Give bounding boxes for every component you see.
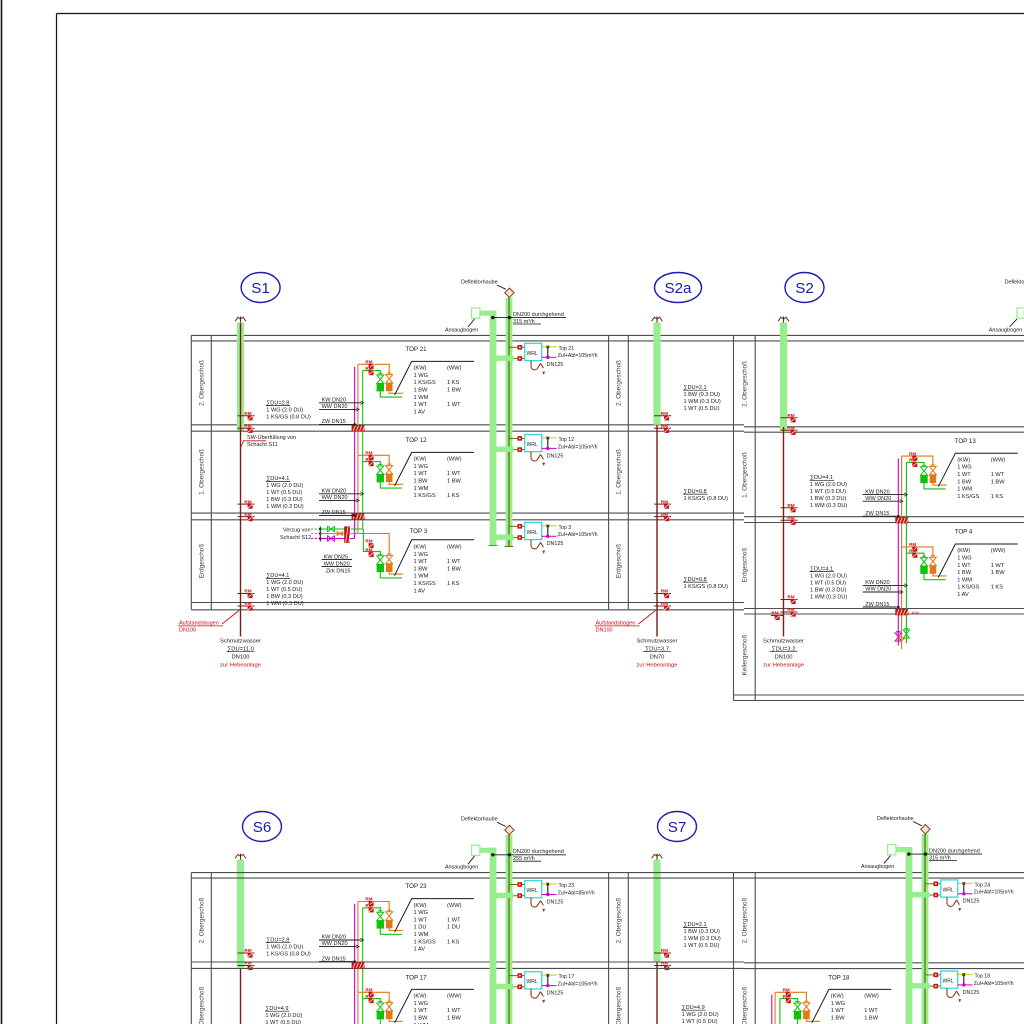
svg-text:RM: RM bbox=[244, 601, 251, 606]
svg-text:zur Hebeanlage: zur Hebeanlage bbox=[220, 663, 261, 669]
svg-text:WRL: WRL bbox=[527, 530, 538, 536]
svg-text:1 WT (0.5 DU): 1 WT (0.5 DU) bbox=[682, 1019, 718, 1024]
supply riser KW (green) S6 shaft bbox=[362, 908, 364, 1024]
svg-text:1 BW: 1 BW bbox=[447, 479, 462, 485]
riser waste line S7 (dark red) bbox=[656, 962, 658, 1024]
wall line S1 col right (top section) bbox=[210, 335, 212, 609]
svg-text:S7: S7 bbox=[668, 819, 687, 836]
WRL ventilation unit Top 18 bbox=[909, 983, 930, 988]
RM markers on riser S1 bbox=[238, 503, 255, 505]
wall line right col right (bottom section) bbox=[754, 873, 756, 1024]
svg-text:(WW): (WW) bbox=[447, 994, 462, 1000]
svg-text:RM: RM bbox=[909, 451, 916, 456]
RM markers on riser S6 bbox=[238, 952, 255, 954]
slab penetration hatch S1 1.OG bbox=[352, 513, 365, 519]
svg-text:1 WT: 1 WT bbox=[414, 917, 428, 923]
svg-text:1. Obergeschoß: 1. Obergeschoß bbox=[615, 986, 622, 1024]
WRL ventilation unit Top 3 bbox=[493, 535, 514, 540]
svg-text:RM: RM bbox=[244, 589, 251, 594]
supply riser ZW (magenta) bottom-right shaft bbox=[771, 995, 773, 1024]
svg-text:Zirk DN15: Zirk DN15 bbox=[326, 568, 351, 574]
svg-text:1 KS: 1 KS bbox=[447, 380, 460, 386]
svg-text:1 WM: 1 WM bbox=[414, 486, 429, 492]
svg-text:1 BW (0.3 DU): 1 BW (0.3 DU) bbox=[810, 496, 847, 502]
svg-text:TOP 17: TOP 17 bbox=[406, 974, 428, 981]
svg-text:DN125: DN125 bbox=[547, 453, 564, 459]
floor slab roof band (top section, full width) bbox=[191, 334, 1024, 336]
svg-text:2. Obergeschoß: 2. Obergeschoß bbox=[741, 897, 748, 943]
svg-text:TOP 3: TOP 3 bbox=[410, 528, 428, 535]
svg-text:DN125: DN125 bbox=[963, 990, 980, 996]
svg-text:(WW): (WW) bbox=[447, 545, 462, 551]
Ansaugbogen symbol (S6 bottom) bbox=[479, 848, 497, 853]
svg-text:Erdgeschoß: Erdgeschoß bbox=[615, 544, 622, 579]
svg-text:1 WG: 1 WG bbox=[957, 556, 972, 562]
svg-text:(WW): (WW) bbox=[447, 457, 462, 463]
Ansaugbogen symbol (S1 top) bbox=[479, 311, 497, 316]
svg-text:(KW): (KW) bbox=[957, 548, 970, 554]
svg-text:DN200 durchgehend: DN200 durchgehend bbox=[513, 312, 564, 318]
svg-text:DN100: DN100 bbox=[231, 655, 249, 661]
svg-text:1 WT: 1 WT bbox=[414, 1008, 428, 1014]
WRL ventilation unit Top 12 bbox=[493, 447, 514, 452]
svg-text:RM: RM bbox=[661, 601, 668, 606]
svg-text:DN100: DN100 bbox=[596, 628, 613, 634]
svg-text:Deflektorhaube: Deflektorhaube bbox=[1005, 280, 1024, 286]
Deflektorhaube symbol (S1 top) bbox=[505, 288, 514, 297]
svg-text:Schmutzwasser: Schmutzwasser bbox=[220, 639, 261, 645]
WRL ventilation unit Top 17 bbox=[493, 984, 514, 989]
RM markers on riser S2 bbox=[781, 599, 798, 601]
svg-text:(KW): (KW) bbox=[414, 545, 427, 551]
wall line S2 col left (top section) bbox=[733, 335, 735, 700]
svg-text:(KW): (KW) bbox=[414, 903, 427, 909]
svg-text:1 WT: 1 WT bbox=[957, 563, 971, 569]
svg-text:RM: RM bbox=[244, 424, 251, 429]
svg-text:S2a: S2a bbox=[664, 280, 692, 297]
riser pipe S6 (green) bbox=[237, 860, 244, 968]
svg-text:1 DU: 1 DU bbox=[414, 925, 427, 931]
supply riser KW (green) bottom-right shaft bbox=[779, 999, 781, 1024]
svg-text:Zul+Abl=105m³/h: Zul+Abl=105m³/h bbox=[974, 981, 1014, 987]
svg-text:1 KS: 1 KS bbox=[447, 581, 460, 587]
WRL ventilation unit Top 24 bbox=[909, 892, 930, 897]
svg-text:RM: RM bbox=[661, 589, 668, 594]
svg-text:1 BW: 1 BW bbox=[957, 479, 972, 485]
EG distribution runs (S1) bbox=[320, 528, 363, 530]
svg-text:Schmutzwasser: Schmutzwasser bbox=[637, 639, 678, 645]
svg-text:1. Obergeschoß: 1. Obergeschoß bbox=[741, 986, 748, 1024]
svg-text:1 AV: 1 AV bbox=[957, 592, 969, 598]
riser waste line S1 (dark red) bbox=[240, 323, 242, 637]
svg-text:RM: RM bbox=[365, 457, 372, 462]
exhaust duct (bottom right) bbox=[922, 834, 929, 1024]
DN200 note (S1 top) bbox=[493, 317, 566, 319]
WRL ventilation unit Top 23 bbox=[493, 893, 514, 898]
svg-text:1 WT: 1 WT bbox=[447, 471, 461, 477]
svg-text:WRL: WRL bbox=[943, 978, 954, 984]
svg-text:S6: S6 bbox=[253, 819, 272, 836]
wall line S2a col left (top section) bbox=[608, 335, 610, 609]
riser pipe S2a (green) bbox=[653, 323, 660, 425]
svg-text:1 KS/GS: 1 KS/GS bbox=[414, 493, 436, 499]
exhaust duct core line (S6 bottom) bbox=[508, 835, 510, 1024]
svg-text:1 WM (0.3 DU): 1 WM (0.3 DU) bbox=[684, 399, 721, 405]
Deflektorhaube symbol (S6 bottom) bbox=[505, 825, 514, 834]
svg-text:Deflektorhaube: Deflektorhaube bbox=[461, 280, 498, 286]
svg-text:1 BW: 1 BW bbox=[414, 479, 429, 485]
supply riser WW (orange) S6 shaft bbox=[357, 902, 359, 1024]
supply riser WW (orange) bottom-right shaft bbox=[774, 992, 776, 1024]
svg-text:1 WM: 1 WM bbox=[414, 574, 429, 580]
svg-text:RM: RM bbox=[909, 458, 916, 463]
svg-text:1 WG: 1 WG bbox=[414, 1001, 429, 1007]
svg-text:Ansaugbogen: Ansaugbogen bbox=[445, 865, 478, 871]
svg-text:RM: RM bbox=[365, 539, 372, 544]
RM markers on riser S7 bbox=[654, 952, 671, 954]
svg-text:TOP 23: TOP 23 bbox=[406, 883, 428, 890]
wall line S6 col right (bottom section) bbox=[210, 873, 212, 1024]
vent arrow above riser S2 bbox=[783, 317, 785, 326]
svg-text:1 BW: 1 BW bbox=[864, 1016, 879, 1022]
svg-text:RM: RM bbox=[244, 512, 251, 517]
svg-text:KW: KW bbox=[912, 611, 920, 616]
svg-text:Zul+Abl=105m³/h: Zul+Abl=105m³/h bbox=[558, 353, 598, 359]
svg-text:RM: RM bbox=[365, 903, 372, 908]
svg-text:SW-Überfüllung von: SW-Überfüllung von bbox=[247, 434, 296, 441]
svg-text:DN125: DN125 bbox=[963, 899, 980, 905]
svg-text:1 WT: 1 WT bbox=[991, 563, 1005, 569]
svg-text:1 WT: 1 WT bbox=[447, 402, 461, 408]
svg-text:Ansaugbogen: Ansaugbogen bbox=[989, 328, 1022, 334]
svg-text:(WW): (WW) bbox=[447, 903, 462, 909]
svg-text:DN100: DN100 bbox=[179, 628, 196, 634]
supply riser WW (orange) S2 shaft bbox=[901, 456, 903, 649]
svg-text:1 WM: 1 WM bbox=[957, 577, 972, 583]
svg-text:RM: RM bbox=[661, 512, 668, 517]
svg-text:RM: RM bbox=[365, 897, 372, 902]
page edge line (left paper border) bbox=[1, 0, 3, 1024]
KG valve set below S2 shaft bbox=[895, 633, 901, 641]
svg-text:1 WT: 1 WT bbox=[447, 1008, 461, 1014]
exhaust duct (S1 top) bbox=[506, 298, 513, 547]
vent arrow above riser S6 bbox=[240, 854, 242, 863]
floor slab KG bottom (S2 zone) bbox=[734, 694, 1024, 696]
svg-text:1 WG (2.0 DU): 1 WG (2.0 DU) bbox=[266, 483, 303, 489]
svg-text:RM: RM bbox=[909, 542, 916, 547]
svg-text:1 BW: 1 BW bbox=[414, 388, 429, 394]
svg-text:(WW): (WW) bbox=[864, 994, 879, 1000]
svg-text:Top 24: Top 24 bbox=[975, 882, 991, 888]
RM markers on riser S2 bbox=[781, 417, 798, 419]
svg-text:1 WT: 1 WT bbox=[957, 472, 971, 478]
svg-text:1 BW (0.3 DU): 1 BW (0.3 DU) bbox=[684, 392, 721, 398]
wall line S1 col left (top section) bbox=[190, 335, 192, 609]
svg-text:1 KS: 1 KS bbox=[991, 494, 1004, 500]
svg-text:1 WG (2.0 DU): 1 WG (2.0 DU) bbox=[810, 573, 847, 579]
drawing frame top line bbox=[57, 13, 1024, 15]
svg-text:RM: RM bbox=[783, 988, 790, 993]
svg-text:2. Obergeschoß: 2. Obergeschoß bbox=[615, 897, 622, 943]
WRL ventilation unit Top 21 bbox=[493, 356, 514, 361]
floor slab 2.OG/1.OG separator (S1-S2a zone) bbox=[191, 424, 744, 426]
svg-text:Top 21: Top 21 bbox=[559, 346, 575, 352]
DN200 note (S6 bottom) bbox=[493, 854, 566, 856]
svg-text:1 KS/GS (0.8 DU): 1 KS/GS (0.8 DU) bbox=[266, 952, 311, 958]
svg-text:Deflektorhaube: Deflektorhaube bbox=[461, 817, 498, 823]
svg-text:RM: RM bbox=[787, 595, 794, 600]
svg-text:1. Obergeschoß: 1. Obergeschoß bbox=[198, 449, 205, 495]
svg-text:1 WM: 1 WM bbox=[414, 932, 429, 938]
supply riser ZW (magenta) S1 shaft bbox=[354, 367, 356, 539]
svg-text:1 KS/GS (0.8 DU): 1 KS/GS (0.8 DU) bbox=[684, 584, 729, 590]
svg-text:RM: RM bbox=[787, 413, 794, 418]
supply riser KW (green) S2 shaft bbox=[905, 462, 907, 643]
svg-text:TOP 12: TOP 12 bbox=[406, 437, 428, 444]
svg-text:1. Obergeschoß: 1. Obergeschoß bbox=[198, 986, 205, 1024]
svg-text:1 WG: 1 WG bbox=[414, 910, 429, 916]
svg-text:TOP 13: TOP 13 bbox=[955, 438, 977, 445]
svg-text:DN200 durchgehend: DN200 durchgehend bbox=[513, 849, 564, 855]
svg-text:DN100: DN100 bbox=[774, 655, 792, 661]
slab penetration hatch S2 1.OG bbox=[895, 517, 908, 523]
svg-text:1 AV: 1 AV bbox=[414, 947, 426, 953]
svg-text:1 BW (0.3 DU): 1 BW (0.3 DU) bbox=[684, 929, 721, 935]
svg-text:WRL: WRL bbox=[527, 979, 538, 985]
svg-text:RM: RM bbox=[783, 994, 790, 999]
strand bubble S2 bbox=[785, 273, 824, 303]
floor slab roof band (bottom section) bbox=[191, 872, 1024, 874]
svg-text:Deflektorhaube: Deflektorhaube bbox=[877, 816, 914, 822]
svg-text:WRL: WRL bbox=[943, 887, 954, 893]
svg-text:1 BW: 1 BW bbox=[957, 570, 972, 576]
svg-text:1 KS: 1 KS bbox=[447, 493, 460, 499]
svg-text:RM: RM bbox=[787, 515, 794, 520]
svg-text:1 WM (0.3 DU): 1 WM (0.3 DU) bbox=[684, 936, 721, 942]
apartment tap group TOP 18 bbox=[775, 992, 806, 1002]
svg-text:RM: RM bbox=[365, 988, 372, 993]
svg-text:1 KS/GS (0.8 DU): 1 KS/GS (0.8 DU) bbox=[266, 414, 311, 420]
svg-text:DN125: DN125 bbox=[547, 899, 564, 905]
vent arrow above riser S2a bbox=[656, 317, 658, 326]
svg-text:RM: RM bbox=[661, 411, 668, 416]
svg-text:RM: RM bbox=[244, 948, 251, 953]
floor slab 2.OG/1.OG separator (S2 zone) bbox=[744, 426, 1024, 428]
svg-text:2. Obergeschoß: 2. Obergeschoß bbox=[198, 360, 205, 406]
svg-text:RM: RM bbox=[365, 360, 372, 365]
RM marker left of S2 riser foot bbox=[771, 615, 784, 617]
svg-text:1 WT: 1 WT bbox=[447, 917, 461, 923]
apartment tap group TOP 23 bbox=[358, 902, 389, 912]
floor slab EG bottom (S1-S2a zone) bbox=[191, 602, 744, 604]
duct end caps (S1 top) bbox=[489, 545, 498, 547]
svg-text:Zul+Abl=105m³/h: Zul+Abl=105m³/h bbox=[558, 532, 598, 538]
svg-text:Erdgeschoß: Erdgeschoß bbox=[198, 544, 205, 579]
apartment tap group TOP 3 bbox=[363, 529, 380, 556]
svg-text:TOP 4: TOP 4 bbox=[955, 529, 973, 536]
exhaust duct (S6 bottom) bbox=[506, 835, 513, 1024]
slab penetration hatch S6 2.OG bbox=[352, 962, 365, 968]
floor slab 2.OG/1.OG separator (bottom right zone) bbox=[744, 962, 1024, 964]
svg-text:RM: RM bbox=[365, 451, 372, 456]
svg-text:1 WG: 1 WG bbox=[414, 373, 429, 379]
svg-text:1. Obergeschoß: 1. Obergeschoß bbox=[615, 449, 622, 495]
svg-text:RM: RM bbox=[771, 611, 778, 616]
svg-text:1 WT (0.5 DU): 1 WT (0.5 DU) bbox=[810, 580, 846, 586]
svg-text:Top 23: Top 23 bbox=[559, 883, 575, 889]
svg-text:zur Hebeanlage: zur Hebeanlage bbox=[763, 663, 804, 669]
apartment tap group TOP 13 bbox=[902, 456, 933, 466]
svg-text:S1: S1 bbox=[251, 280, 270, 297]
svg-text:1 KS: 1 KS bbox=[447, 939, 460, 945]
svg-text:1 BW: 1 BW bbox=[991, 479, 1006, 485]
svg-text:1 KS/GS: 1 KS/GS bbox=[957, 494, 979, 500]
svg-text:Schacht S11: Schacht S11 bbox=[247, 442, 278, 448]
svg-text:1 WG (2.0 DU): 1 WG (2.0 DU) bbox=[266, 945, 303, 951]
svg-text:RM: RM bbox=[244, 411, 251, 416]
svg-text:RM: RM bbox=[244, 499, 251, 504]
svg-text:DN200 durchgehend: DN200 durchgehend bbox=[929, 849, 980, 855]
vent arrow above riser S1 bbox=[240, 317, 242, 326]
svg-text:1 WM (0.3 DU): 1 WM (0.3 DU) bbox=[266, 601, 303, 607]
svg-text:(WW): (WW) bbox=[991, 457, 1006, 463]
svg-text:RM: RM bbox=[661, 948, 668, 953]
svg-text:1 BW (0.3 DU): 1 BW (0.3 DU) bbox=[266, 594, 303, 600]
slab penetration hatch S2 EG bbox=[895, 609, 908, 615]
svg-text:TOP 21: TOP 21 bbox=[406, 346, 428, 353]
wall line S7 col right (bottom section) bbox=[627, 873, 629, 1024]
svg-text:RM: RM bbox=[365, 994, 372, 999]
svg-text:(WW): (WW) bbox=[991, 548, 1006, 554]
svg-text:1 WG (2.0 DU): 1 WG (2.0 DU) bbox=[266, 580, 303, 586]
vent arrow above riser S7 bbox=[656, 854, 658, 863]
svg-text:1 WT (0.5 DU): 1 WT (0.5 DU) bbox=[266, 490, 302, 496]
svg-text:WRL: WRL bbox=[527, 351, 538, 357]
inline meter hatch (S1 EG) bbox=[344, 526, 350, 542]
svg-text:RM: RM bbox=[787, 607, 794, 612]
svg-text:zur Hebeanlage: zur Hebeanlage bbox=[637, 663, 678, 669]
svg-text:WRL: WRL bbox=[527, 442, 538, 448]
svg-text:1. Obergeschoß: 1. Obergeschoß bbox=[741, 452, 748, 498]
svg-text:1 BW: 1 BW bbox=[831, 1016, 846, 1022]
floor slab 1.OG/EG separator (S1-S2a zone) bbox=[191, 512, 744, 514]
svg-text:1 DU: 1 DU bbox=[447, 925, 460, 931]
svg-text:1 BW: 1 BW bbox=[447, 1016, 462, 1022]
svg-text:Top 17: Top 17 bbox=[559, 974, 575, 980]
floor slab EG/KG separator (S2 zone) bbox=[744, 608, 1024, 610]
svg-text:1 BW (0.3 DU): 1 BW (0.3 DU) bbox=[810, 587, 847, 593]
supply duct (bottom right) bbox=[906, 847, 913, 1024]
svg-text:1 WG (2.0 DU): 1 WG (2.0 DU) bbox=[810, 482, 847, 488]
drawing frame left line bbox=[56, 14, 58, 1024]
svg-text:1 WT: 1 WT bbox=[447, 559, 461, 565]
svg-text:1 WT: 1 WT bbox=[991, 472, 1005, 478]
svg-text:1 WM: 1 WM bbox=[957, 487, 972, 493]
svg-text:1 AV: 1 AV bbox=[414, 409, 426, 415]
svg-text:1 KS/GS (0.8 DU): 1 KS/GS (0.8 DU) bbox=[684, 496, 729, 502]
svg-text:1 WG (2.0 DU): 1 WG (2.0 DU) bbox=[682, 1012, 719, 1018]
supply riser WW (orange) S1 shaft bbox=[357, 364, 359, 533]
supply duct (S1 top) bbox=[490, 311, 497, 546]
svg-text:1 AV: 1 AV bbox=[414, 588, 426, 594]
svg-text:1 WT: 1 WT bbox=[414, 471, 428, 477]
svg-text:RM: RM bbox=[909, 548, 916, 553]
RM markers on riser S2a bbox=[654, 503, 671, 505]
svg-text:1 WT: 1 WT bbox=[414, 402, 428, 408]
svg-text:1 WT: 1 WT bbox=[831, 1008, 845, 1014]
Ansaugbogen symbol (bottom right) bbox=[895, 847, 913, 852]
svg-text:1 WG (2.0 DU): 1 WG (2.0 DU) bbox=[265, 1013, 302, 1019]
exhaust duct core line (bottom right) bbox=[924, 834, 926, 1024]
apartment tap group TOP 17 bbox=[358, 992, 389, 1002]
floor slab 2.OG/1.OG separator (S6-S7 zone) bbox=[191, 961, 744, 963]
svg-text:1 WT (0.5 DU): 1 WT (0.5 DU) bbox=[266, 587, 302, 593]
apartment tap group TOP 12 bbox=[358, 455, 389, 465]
svg-text:WRL: WRL bbox=[527, 888, 538, 894]
apartment tap group TOP 4 bbox=[902, 547, 933, 557]
riser waste line S6 (dark red) bbox=[240, 968, 242, 1024]
svg-text:DN125: DN125 bbox=[547, 991, 564, 997]
supply duct (S6 bottom) bbox=[490, 848, 497, 1024]
svg-text:1 WT (0.5 DU): 1 WT (0.5 DU) bbox=[684, 406, 720, 412]
svg-text:1 WM: 1 WM bbox=[414, 395, 429, 401]
svg-text:1 BW: 1 BW bbox=[414, 1016, 429, 1022]
svg-text:1 KS/GS: 1 KS/GS bbox=[414, 939, 436, 945]
supply riser ZW (magenta) S6 shaft bbox=[354, 904, 356, 1024]
svg-text:S2: S2 bbox=[795, 280, 814, 297]
svg-text:RM: RM bbox=[787, 426, 794, 431]
RM markers on riser S1 bbox=[238, 415, 255, 417]
svg-text:2. Obergeschoß: 2. Obergeschoß bbox=[741, 361, 748, 407]
svg-text:(KW): (KW) bbox=[414, 994, 427, 1000]
svg-text:Top 3: Top 3 bbox=[559, 525, 572, 531]
svg-text:Top 12: Top 12 bbox=[559, 437, 575, 443]
Ansaugbogen symbol (top right, cut) bbox=[1017, 308, 1024, 318]
wall line S2a col right (top section) bbox=[627, 335, 629, 609]
svg-text:1 WT: 1 WT bbox=[864, 1008, 878, 1014]
svg-text:(KW): (KW) bbox=[957, 457, 970, 463]
svg-text:Top 18: Top 18 bbox=[975, 973, 991, 979]
wall line S6 col left (bottom section) bbox=[190, 873, 192, 1024]
exhaust duct core line (S1 top) bbox=[508, 298, 510, 548]
svg-text:DN125: DN125 bbox=[547, 541, 564, 547]
supply riser KW (green) S1 shaft bbox=[362, 371, 364, 529]
wall line S2 col right (top section) bbox=[754, 335, 756, 700]
svg-text:Zul+Abl=105m³/h: Zul+Abl=105m³/h bbox=[558, 982, 598, 988]
svg-text:Kellergeschoß: Kellergeschoß bbox=[741, 634, 748, 675]
riser pipe S7 (green) bbox=[653, 860, 660, 962]
svg-text:Erdgeschoß: Erdgeschoß bbox=[741, 548, 748, 583]
svg-text:DN125: DN125 bbox=[547, 362, 564, 368]
riser pipe S1 (green) bbox=[237, 323, 244, 431]
svg-text:1 KS: 1 KS bbox=[991, 585, 1004, 591]
strand bubble S7 bbox=[658, 812, 697, 842]
svg-text:Schacht S12: Schacht S12 bbox=[280, 535, 311, 541]
svg-text:Zul+Abl=85m³/h: Zul+Abl=85m³/h bbox=[558, 890, 595, 896]
svg-text:1 WG: 1 WG bbox=[831, 1001, 846, 1007]
svg-text:(KW): (KW) bbox=[831, 994, 844, 1000]
svg-text:(KW): (KW) bbox=[414, 366, 427, 372]
svg-text:Verzug von: Verzug von bbox=[283, 528, 311, 534]
svg-text:1 KS/GS: 1 KS/GS bbox=[414, 380, 436, 386]
strand bubble S1 bbox=[241, 273, 280, 303]
svg-text:RM: RM bbox=[365, 366, 372, 371]
wall line S7 col left (bottom section) bbox=[608, 873, 610, 1024]
svg-text:1 BW: 1 BW bbox=[991, 570, 1006, 576]
riser pipe S2 (green) bbox=[780, 323, 787, 433]
svg-text:1 WM (0.3 DU): 1 WM (0.3 DU) bbox=[266, 504, 303, 510]
svg-text:1 KS/GS: 1 KS/GS bbox=[414, 581, 436, 587]
